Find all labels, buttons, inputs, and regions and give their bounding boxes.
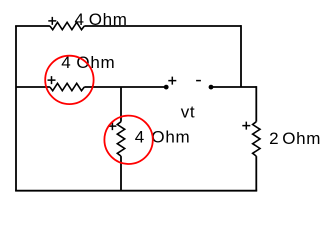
wire: right branch lower segment xyxy=(255,156,257,191)
svg-text:vt: vt xyxy=(181,103,196,122)
wire: middle branch upper segment xyxy=(120,87,122,122)
wire: top rail right segment xyxy=(84,25,241,27)
wire: middle rail right segment xyxy=(211,86,256,88)
wire: middle rail left segment xyxy=(16,86,50,88)
wire: middle branch lower segment xyxy=(120,156,122,191)
polarity + of R1 xyxy=(48,17,56,25)
vt - sign xyxy=(196,80,201,82)
resistor R4 2 Ohm (right branch) xyxy=(253,122,260,156)
resistor R3 4 Ohm (middle branch) xyxy=(117,122,124,156)
node dot A (vt +) xyxy=(164,85,169,90)
wire: right upper vertical drop xyxy=(240,25,242,87)
svg-text:2Ohm: 2Ohm xyxy=(269,129,321,148)
polarity + of R2 xyxy=(48,76,56,84)
resistor R2 4 Ohm (middle left) xyxy=(50,83,84,90)
red highlight circle around R2 xyxy=(45,56,93,104)
wire: top rail left segment xyxy=(15,25,50,27)
wire: middle rail center segment xyxy=(84,86,166,88)
polarity + of R4 xyxy=(242,122,250,130)
node dot B (vt -) xyxy=(209,85,214,90)
red highlight circle around R3 xyxy=(104,116,152,164)
polarity + of R3 xyxy=(108,122,116,130)
wire: bottom rail xyxy=(15,190,257,192)
resistor R1 4 Ohm (top) xyxy=(50,22,84,29)
wire: left rail xyxy=(15,26,17,191)
svg-text:4Ohm: 4Ohm xyxy=(135,127,191,146)
wire: right branch upper segment xyxy=(255,86,257,122)
vt + sign xyxy=(168,77,176,85)
